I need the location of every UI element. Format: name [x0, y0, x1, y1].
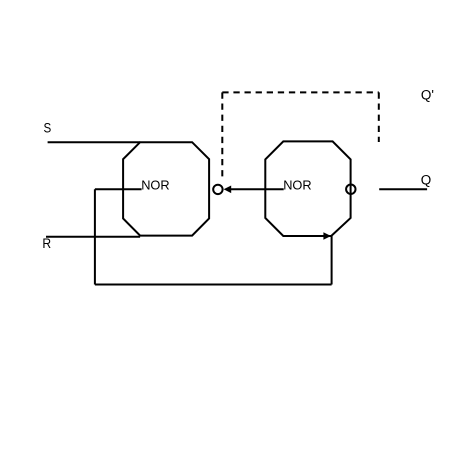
svg-text:NOR: NOR: [141, 177, 169, 192]
output bubble of U2: [346, 185, 355, 194]
svg-text:R: R: [42, 235, 51, 251]
wire S input to U1 top-left vertex: [48, 141, 141, 143]
wire feedback bottom horizontal: [95, 284, 332, 286]
svg-text:Q: Q: [421, 172, 432, 187]
svg-text:S: S: [44, 120, 52, 136]
wire R input to U1 bottom-left vertex: [46, 236, 140, 238]
svg-text:NOR: NOR: [283, 177, 311, 192]
wire U2 input to U1 output bubble: [231, 188, 284, 190]
dashed wire Q' horizontal: [222, 91, 378, 93]
output bubble of U1: [213, 185, 222, 194]
NOR gate U2 (right octagon body): [265, 141, 350, 236]
wire Q output: [379, 188, 427, 190]
NOR gate U1 (left octagon body): [123, 142, 209, 235]
wire feedback right vertical up to U2 bottom vertex: [331, 236, 333, 285]
svg-text:Q': Q': [421, 88, 434, 103]
wire feedback into U1 input (horizontal into NOR label): [95, 188, 142, 190]
wire feedback left vertical: [94, 189, 96, 284]
arrowhead at U1 output bubble: [224, 186, 232, 194]
dashed wire Q' left vertical down to bubble: [221, 92, 223, 181]
dashed wire Q' right vertical stub: [378, 92, 380, 142]
arrowhead into U2 bottom-right vertex: [323, 232, 331, 240]
